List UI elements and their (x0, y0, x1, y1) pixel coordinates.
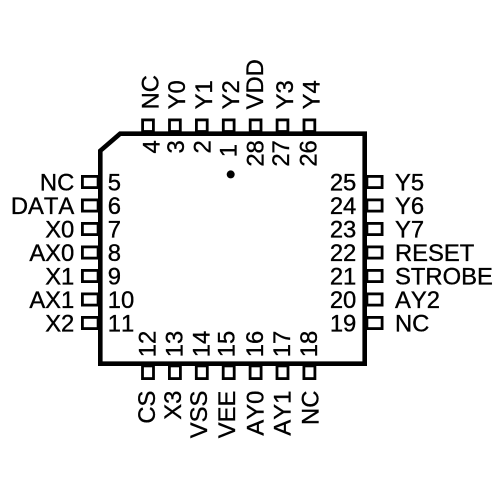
pin 9 pad (left) (82, 270, 98, 281)
svg-text:28: 28 (242, 140, 269, 166)
svg-text:11: 11 (108, 310, 134, 337)
pin 25 pad (right) (367, 176, 382, 187)
svg-text:Y1: Y1 (191, 80, 218, 109)
pin 23 pad (right) (367, 223, 382, 234)
svg-text:NC: NC (137, 75, 164, 109)
pin 11 pad (left) (82, 317, 98, 328)
svg-text:NC: NC (395, 310, 429, 337)
svg-text:X3: X3 (160, 391, 187, 420)
svg-text:X2: X2 (45, 310, 74, 337)
svg-text:CS: CS (134, 391, 161, 424)
svg-text:VEE: VEE (214, 391, 241, 439)
pin 4 pad (top) (143, 120, 154, 132)
svg-text:VSS: VSS (186, 391, 213, 439)
svg-text:AY1: AY1 (270, 391, 297, 436)
pin 10 pad (left) (82, 294, 98, 305)
svg-text:19: 19 (330, 310, 356, 337)
svg-text:26: 26 (296, 140, 323, 166)
svg-text:16: 16 (242, 331, 269, 357)
pin 22 pad (right) (367, 247, 382, 258)
pin 24 pad (right) (367, 200, 382, 211)
svg-text:4: 4 (139, 140, 166, 153)
svg-text:27: 27 (268, 140, 295, 166)
pin 6 pad (left) (82, 200, 98, 211)
pin 16 pad (bottom) (250, 366, 261, 379)
pin 19 pad (right) (367, 317, 382, 328)
pin 8 pad (left) (82, 247, 98, 258)
svg-text:17: 17 (269, 331, 296, 357)
pin 17 pad (bottom) (277, 366, 288, 379)
pin 26 pad (top) (304, 120, 315, 132)
pin 5 pad (left) (82, 176, 98, 187)
svg-text:Y3: Y3 (272, 80, 299, 109)
pin 20 pad (right) (367, 294, 382, 305)
svg-text:AY0: AY0 (243, 391, 270, 436)
pin 14 pad (bottom) (196, 366, 207, 379)
svg-text:VDD: VDD (242, 59, 269, 109)
pin 3 pad (top) (170, 120, 181, 132)
pin 12 pad (bottom) (143, 366, 154, 379)
pin 1 index dot (227, 170, 235, 178)
svg-text:3: 3 (163, 140, 190, 153)
svg-text:14: 14 (188, 331, 215, 357)
pin 13 pad (bottom) (169, 366, 180, 379)
pin 2 pad (top) (196, 120, 207, 132)
pin 18 pad (bottom) (304, 366, 315, 379)
IC package body U1 (28-pin PLCC outline, chamfered pin-1 corner) (100, 134, 364, 364)
pin 1 pad (top) (223, 120, 234, 132)
svg-text:Y4: Y4 (299, 80, 326, 109)
svg-text:13: 13 (161, 331, 188, 357)
pin 7 pad (left) (82, 223, 98, 234)
pin 21 pad (right) (367, 270, 382, 281)
pin 15 pad (bottom) (223, 366, 234, 379)
svg-text:1: 1 (216, 144, 243, 157)
pin 28 pad (top) (250, 120, 261, 132)
svg-text:NC: NC (297, 391, 324, 425)
svg-text:15: 15 (214, 331, 241, 357)
svg-text:2: 2 (189, 140, 216, 153)
svg-text:Y0: Y0 (164, 80, 191, 109)
pin 27 pad (top) (277, 120, 288, 132)
svg-text:18: 18 (296, 331, 323, 357)
svg-text:12: 12 (135, 331, 162, 357)
